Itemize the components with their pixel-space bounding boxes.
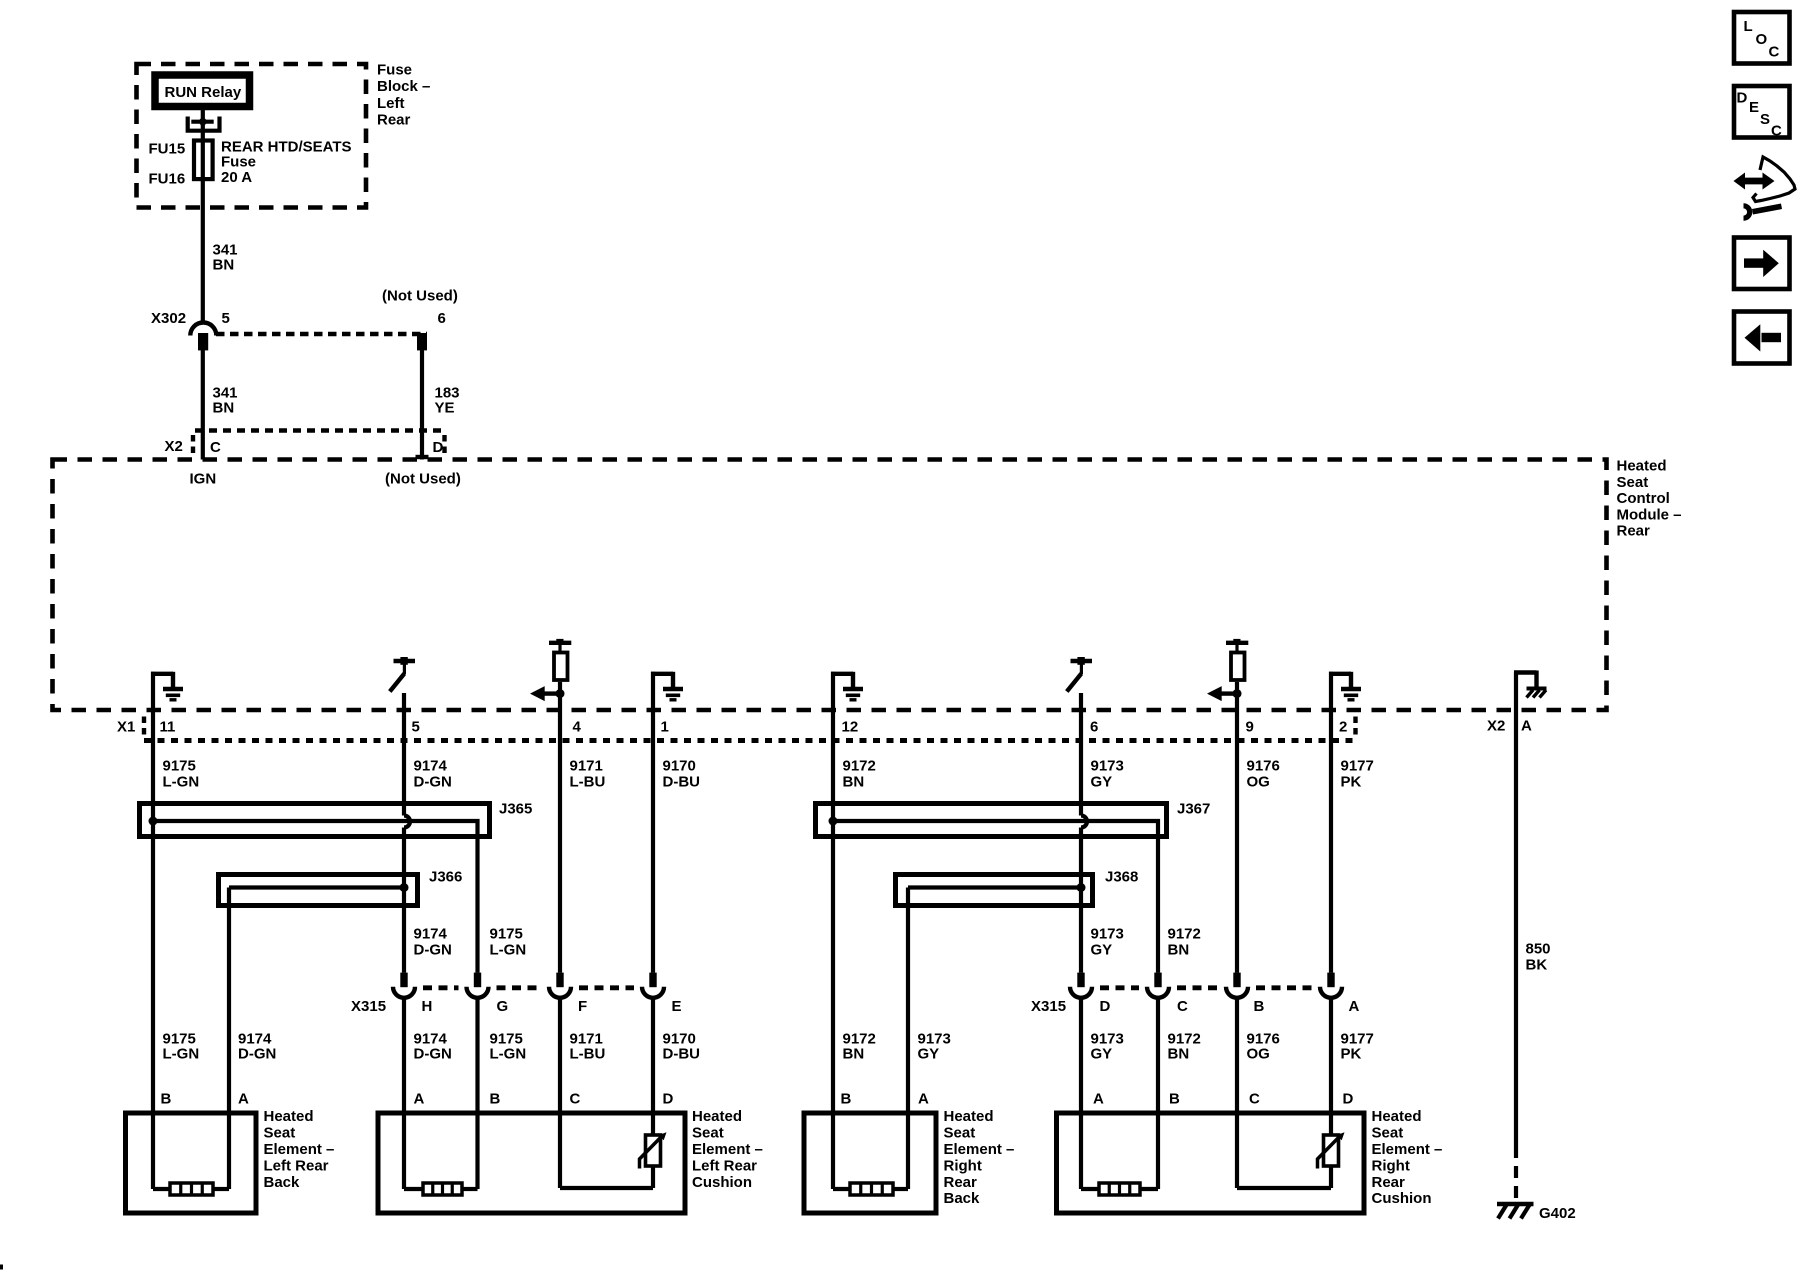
svg-text:E: E (672, 998, 682, 1015)
svg-text:X302: X302 (151, 310, 186, 327)
svg-text:5: 5 (222, 310, 230, 327)
svg-text:A: A (918, 1091, 929, 1108)
svg-text:9175L-GN: 9175L-GN (490, 926, 527, 959)
svg-text:C: C (1249, 1091, 1260, 1108)
wire stub C to thermistor LRC (560, 1186, 653, 1190)
svg-text:A: A (1349, 998, 1360, 1015)
svg-text:9171L-BU: 9171L-BU (570, 758, 606, 791)
switch symbol inside module at X1-5 (390, 657, 415, 692)
junction dot J366 (400, 883, 409, 892)
connector X315 pin G (467, 973, 489, 998)
svg-text:11: 11 (160, 719, 176, 736)
back arrow glyph (1745, 324, 1782, 351)
heater element RRB (850, 1183, 893, 1195)
svg-text:9175L-GN: 9175L-GN (163, 1031, 200, 1063)
svg-text:C: C (1769, 44, 1780, 61)
wire 850 BK (X2-A to ground) (1514, 672, 1518, 1146)
relay box RUN Relay (155, 75, 250, 107)
svg-text:6: 6 (1090, 719, 1098, 736)
splice lead inside J368 (908, 885, 1081, 889)
svg-text:C: C (210, 439, 221, 456)
svg-text:4: 4 (573, 719, 582, 736)
svg-text:RUN Relay: RUN Relay (165, 84, 242, 101)
svg-text:6: 6 (438, 310, 446, 327)
svg-text:FU15: FU15 (149, 141, 186, 158)
splice box J365 (140, 804, 490, 837)
svg-text:A: A (1093, 1091, 1104, 1108)
dotted edge left of X1-11 (142, 717, 146, 740)
svg-text:G402: G402 (1539, 1205, 1576, 1222)
fuse FU15/FU16 REAR HTD/SEATS 20 A (194, 141, 213, 180)
heater element LRC (423, 1183, 462, 1195)
wire 9171 L-BU (X1-4 to X315-F) (558, 682, 562, 973)
dotted connector edge right of D (442, 435, 446, 457)
sense resistor with arrow at X1-9 (1207, 639, 1248, 701)
dotted edge right of X1-2 (1353, 717, 1357, 740)
page corner mark (0, 1265, 3, 1270)
svg-text:L: L (1744, 18, 1753, 35)
svg-text:C: C (1771, 123, 1782, 140)
wire 9173 GY (X315-D to seat RR cushion A) (1079, 1000, 1083, 1190)
svg-text:FU16: FU16 (149, 171, 186, 188)
svg-text:(Not Used): (Not Used) (385, 471, 461, 488)
wire from relay to fuse FU15 (201, 110, 205, 323)
connector X315 pin H (393, 973, 415, 998)
svg-text:X315: X315 (1031, 998, 1066, 1015)
svg-text:9170D-BU: 9170D-BU (663, 758, 701, 791)
svg-text:E: E (1749, 99, 1759, 116)
svg-text:9175L-GN: 9175L-GN (490, 1031, 527, 1063)
switch symbol inside module at X1-6 (1067, 657, 1092, 692)
svg-text:1: 1 (661, 719, 669, 736)
terminal foot at X2-D (416, 455, 429, 459)
svg-text:J368: J368 (1105, 869, 1138, 886)
svg-text:A: A (414, 1091, 425, 1108)
connector X315 pin D (1070, 973, 1092, 998)
wire stub into heater element RRC right (1140, 1187, 1158, 1191)
icon: navigation arrows with wrench (1734, 157, 1796, 218)
svg-text:B: B (161, 1091, 172, 1108)
wire 341 BN (X302-5 to X2-C) (201, 350, 205, 460)
svg-text:9174D-GN: 9174D-GN (414, 926, 452, 959)
svg-text:2: 2 (1339, 719, 1347, 736)
heated seat element - left rear back (box) (126, 1113, 257, 1213)
svg-text:O: O (1756, 31, 1768, 48)
wire hop over splice lead (1081, 816, 1087, 828)
svg-text:B: B (1169, 1091, 1180, 1108)
junction dot J368 (1077, 883, 1086, 892)
svg-text:B: B (1254, 998, 1265, 1015)
connector X315 pin F (549, 973, 571, 998)
connector X315 pin B (1226, 973, 1248, 998)
wire 183 YE (X302-6 to X2-D) (420, 350, 424, 460)
wire 9177 PK (X315-A to thermistor RRC) (1329, 1000, 1333, 1136)
svg-text:J365: J365 (499, 801, 532, 818)
wire below thermistor RRC (1329, 1166, 1333, 1188)
splice lead inside J366 (229, 885, 404, 889)
icon box DESC (1734, 86, 1790, 138)
svg-text:F: F (578, 998, 587, 1015)
wire 9173 GY branch (J368 to seat RR back A) (906, 888, 910, 1190)
svg-text:G: G (497, 998, 509, 1015)
wire stub into heater element RRC (1081, 1187, 1099, 1191)
heated seat element - left rear cushion (box) (378, 1113, 685, 1213)
svg-text:D: D (1100, 998, 1111, 1015)
wire 9171 L-BU (X315-F to seat LR cushion C) (558, 1000, 562, 1189)
svg-text:X1: X1 (117, 719, 135, 736)
wire 850 BK dashed end (1514, 1146, 1518, 1202)
ground symbol inside module at X1-2 (1329, 672, 1361, 700)
wire stub into heater element LRC right (462, 1187, 478, 1191)
svg-text:A: A (1521, 718, 1532, 735)
sense resistor with arrow at X1-4 (530, 639, 571, 701)
wire 9175 L-GN (X1-11 to seat LR back B) (151, 672, 155, 1189)
icon box forward arrow (1734, 238, 1790, 290)
svg-text:IGN: IGN (190, 471, 217, 488)
svg-text:850BK: 850BK (1526, 941, 1551, 974)
heater element LRB (170, 1183, 213, 1195)
connector X315 pin E (642, 973, 664, 998)
connector X302 pin 6 male pin (417, 333, 427, 350)
connector X302 pin 5 (female arc + male pin) (190, 323, 216, 351)
thermistor LRC (640, 1132, 667, 1168)
heated seat element - right rear back (box) (804, 1113, 936, 1213)
svg-text:X2: X2 (1487, 718, 1505, 735)
wire hop over splice lead (404, 816, 410, 828)
svg-text:9174D-GN: 9174D-GN (238, 1031, 276, 1063)
wire 9173 GY (X1-6 down, hops over J367 lead) (1079, 693, 1083, 816)
svg-text:9: 9 (1246, 719, 1254, 736)
wire 9176 OG (X1-9 to X315-B) (1235, 682, 1239, 973)
dotted connector line C to D (195, 428, 445, 432)
wire stub into heater element RRB (833, 1187, 850, 1191)
connector X315 pin A (1320, 973, 1342, 998)
fuse block - left rear (dashed box) (137, 64, 367, 208)
svg-text:D: D (663, 1091, 674, 1108)
svg-text:5: 5 (412, 719, 420, 736)
svg-text:J366: J366 (429, 869, 462, 886)
svg-text:A: A (238, 1091, 249, 1108)
wire 9174 D-GN (X315-H to seat LR cushion A) (402, 1000, 406, 1190)
svg-text:D: D (433, 439, 444, 456)
svg-text:X2: X2 (165, 438, 183, 455)
forward arrow glyph (1744, 250, 1779, 277)
dashed links X315 D-C-B-A (1100, 985, 1139, 990)
junction dot J367 (829, 817, 838, 826)
connector X315 pin C (1147, 973, 1169, 998)
svg-text:S: S (1760, 111, 1770, 128)
dotted connector line X1 (144, 738, 1357, 743)
icon box back arrow (1734, 312, 1790, 364)
wire stub into heater element RRB right (893, 1187, 908, 1191)
wire below thermistor LRC (651, 1166, 655, 1188)
wire 9174 D-GN branch (J366 to seat LR back A) (227, 888, 231, 1190)
heated seat element - right rear cushion (box) (1057, 1113, 1365, 1213)
wire 9176 OG (X315-B to seat RR cushion C) (1235, 1000, 1239, 1189)
splice box J367 (816, 804, 1167, 837)
svg-text:9175L-GN: 9175L-GN (163, 758, 200, 791)
svg-text:341BN: 341BN (213, 385, 238, 417)
ground symbol inside module at X1-12 (831, 672, 863, 700)
svg-text:J367: J367 (1177, 801, 1210, 818)
svg-text:9174D-GN: 9174D-GN (414, 1031, 452, 1063)
svg-text:9171L-BU: 9171L-BU (570, 1031, 606, 1063)
svg-text:D: D (1343, 1091, 1354, 1108)
svg-text:9174D-GN: 9174D-GN (414, 758, 452, 791)
wire 9177 PK (X1-2 to X315-A) (1329, 672, 1333, 973)
svg-text:(Not Used): (Not Used) (382, 288, 458, 305)
wire 9172 BN (X315-C to seat RR cushion B) (1156, 1000, 1160, 1190)
wire 9170 D-BU (X315-E to thermistor LRC) (651, 1000, 655, 1136)
wire stub into heater element LRB right (213, 1187, 229, 1191)
wire 9175 L-GN branch (J365 to X315-G) (153, 821, 478, 973)
wire 9175 L-GN (X315-G to seat LR cushion B) (475, 1000, 479, 1190)
ground symbol inside module at X1-1 (651, 672, 683, 700)
relay output terminal symbol (188, 117, 220, 131)
wire 9170 D-BU (X1-1 to X315-E) (651, 672, 655, 973)
svg-text:C: C (570, 1091, 581, 1108)
dashed link X302 pin5 to pin6 (216, 332, 427, 336)
ground symbol inside module at X1-11 (151, 672, 183, 700)
chassis ground symbol inside module at X2-A (1514, 671, 1547, 698)
svg-text:H: H (422, 998, 433, 1015)
wire stub C to thermistor RRC (1237, 1186, 1331, 1190)
wire 9172 BN (X1-12 to seat RR back B) (831, 672, 835, 1189)
wire stub into heater element LRC (404, 1187, 423, 1191)
svg-text:D: D (1737, 90, 1748, 107)
wire 9174 D-GN (X1-5 down, hops over J365 lead) (402, 693, 406, 816)
wire stub into heater element LRB (153, 1187, 170, 1191)
ground G402 (1497, 1204, 1534, 1219)
splice box J366 (219, 875, 418, 906)
wire 9172 BN branch (J367 to X315-C) (833, 821, 1158, 973)
heated seat control module - rear (dashed box) (53, 460, 1607, 711)
dotted connector edge left of C (191, 435, 195, 457)
dashed links X315 H-G-F-E (423, 985, 459, 990)
svg-text:9170D-BU: 9170D-BU (663, 1031, 701, 1063)
thermistor RRC (1318, 1132, 1345, 1168)
svg-text:341BN: 341BN (213, 242, 238, 274)
svg-text:C: C (1177, 998, 1188, 1015)
heater element RRC (1099, 1183, 1140, 1195)
splice box J368 (896, 875, 1093, 906)
svg-text:X315: X315 (351, 998, 386, 1015)
junction dot J365 (149, 817, 158, 826)
svg-text:B: B (490, 1091, 501, 1108)
icon box LOC (1734, 12, 1790, 64)
svg-text:12: 12 (842, 719, 859, 736)
svg-text:B: B (841, 1091, 852, 1108)
